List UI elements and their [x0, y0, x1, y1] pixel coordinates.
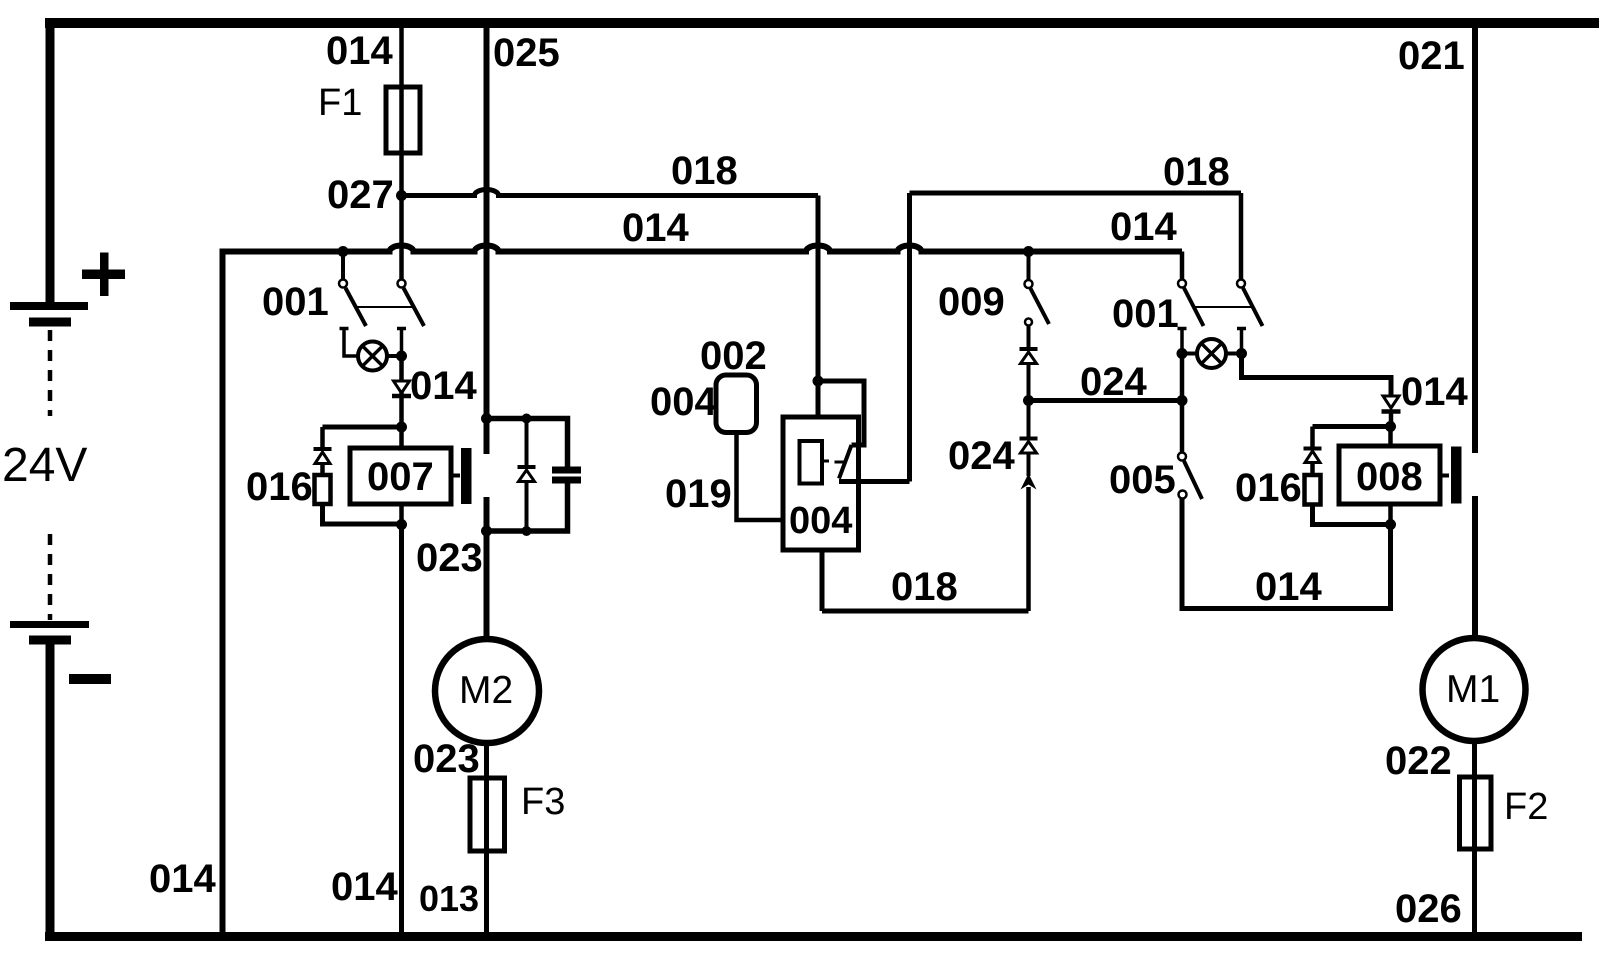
wire resistor 016 upper lead	[320, 427, 325, 449]
switch 001 right group left pivot	[1178, 280, 1186, 288]
wire 018 bottom horizontal	[822, 609, 1029, 614]
svg-text:018: 018	[891, 565, 958, 609]
svg-text:013: 013	[419, 878, 479, 919]
relay 004 switch arm	[839, 445, 852, 479]
svg-text:007: 007	[367, 455, 434, 499]
relay 008 armature bar	[1451, 447, 1462, 504]
wire resistor 016 right upper lead	[1310, 427, 1315, 449]
relay 004 coil nipple	[822, 460, 829, 463]
wire diode branch upper lead	[525, 419, 529, 468]
node junction relay 007 coil top	[396, 422, 407, 433]
lamp left (circle-X)	[358, 342, 387, 371]
svg-text:001: 001	[262, 280, 329, 324]
battery plus sign	[82, 253, 125, 297]
node junction relay 008 coil top	[1385, 421, 1396, 432]
svg-text:014: 014	[149, 857, 216, 901]
svg-text:009: 009	[938, 280, 1005, 324]
svg-text:004: 004	[789, 500, 852, 542]
svg-text:F3: F3	[521, 781, 565, 823]
battery negative long plate	[10, 621, 89, 628]
wire lamp to node 014	[387, 354, 402, 358]
switch 009 pivot	[1025, 280, 1033, 288]
svg-text:024: 024	[1080, 360, 1147, 404]
node junction 018 / relay 004 coil	[813, 376, 824, 387]
wire relay 004 contact feed	[818, 381, 864, 445]
svg-text:024: 024	[948, 434, 1015, 478]
motor M1	[1423, 638, 1526, 741]
svg-text:025: 025	[493, 31, 560, 75]
svg-text:002: 002	[700, 334, 767, 378]
wire switch 001 left pivot feed	[341, 252, 345, 280]
wire 024 horizontal	[1029, 398, 1183, 403]
wire: bottom return bus bar	[45, 932, 1582, 941]
wire chain down to 018 bottom	[1026, 487, 1031, 611]
relay 007 armature link	[451, 474, 460, 478]
wire relay 007 coil top branch	[323, 425, 402, 430]
svg-text:027: 027	[327, 173, 394, 217]
switch 001 right pole pivot	[398, 280, 406, 288]
relay 008 box	[1339, 446, 1440, 504]
wire motor M1 to bottom bus	[1472, 740, 1477, 936]
relay 007 box	[350, 448, 451, 504]
wire relay 007 coil bottom	[399, 504, 404, 525]
diode above resistor 016 right	[1304, 447, 1322, 451]
wire motor M2 to bottom bus	[484, 741, 489, 936]
switch right group right contact stub	[1237, 329, 1246, 352]
wire relay 008 coil top branch	[1313, 424, 1391, 429]
wire resistor 016 right lower lead	[1313, 505, 1391, 525]
check valve symbol 014 left	[394, 381, 410, 393]
wire 018 upper-left horizontal with hump	[402, 190, 819, 196]
svg-text:022: 022	[1385, 739, 1452, 783]
svg-text:014: 014	[326, 29, 393, 73]
arrow head up	[1021, 474, 1037, 490]
wire 018 upper-right horizontal	[910, 191, 1242, 196]
wire switch 009 pivot feed	[1027, 252, 1031, 281]
wire switch 001 right group left pivot feed	[1180, 252, 1185, 280]
wire parallel branch top	[487, 419, 568, 468]
fuse F3	[470, 778, 505, 851]
wire lamp right terminals	[1182, 352, 1242, 356]
node junction lamp left	[1177, 348, 1188, 359]
wire relay 004 output to 018 bottom	[820, 550, 825, 611]
svg-text:M1: M1	[1446, 668, 1500, 711]
diode chain upper	[1020, 347, 1038, 351]
resistor 016 right	[1305, 475, 1321, 505]
svg-text:019: 019	[665, 472, 732, 516]
diode across contact	[518, 465, 536, 469]
node junction lamp right	[1236, 348, 1247, 359]
switch 001 right group linkage	[1194, 306, 1252, 308]
wire capacitor lower lead	[487, 484, 568, 532]
svg-text:018: 018	[1163, 150, 1230, 194]
switch 001 left pole arm	[346, 288, 367, 326]
svg-text:014: 014	[1401, 370, 1468, 414]
node junction diode branch bottom	[522, 526, 532, 536]
wire lamp left down to switch 005	[1180, 354, 1185, 453]
node junction parallel branch bottom	[481, 526, 492, 537]
relay 004 switch arm tick	[835, 461, 846, 464]
lamp right (circle-X)	[1197, 339, 1226, 368]
node junction lamp / 014 drop	[396, 351, 407, 362]
wire to diode chain	[1027, 326, 1031, 350]
battery minus sign	[69, 674, 111, 684]
switch 001 right group left arm	[1184, 288, 1204, 326]
wire 014 fuse F1 feed from top bus	[399, 23, 404, 195]
wire switch 001 right pivot feed	[399, 196, 404, 280]
svg-text:021: 021	[1398, 34, 1465, 78]
diode chain lower	[1020, 437, 1038, 441]
wire valve to relay 008 coil top	[1389, 412, 1394, 427]
resistor 016 left	[315, 475, 331, 504]
battery internal dashed link lower	[48, 534, 53, 620]
relay 008 armature link	[1440, 474, 1449, 478]
switch 001 right contact stub	[397, 329, 406, 352]
svg-text:005: 005	[1109, 458, 1176, 502]
wire relay 004 contact output	[839, 479, 910, 484]
wire switch 005 to 014 bottom	[1182, 499, 1391, 609]
switch 001 left contact stub	[340, 329, 359, 357]
fuse F2	[1460, 777, 1492, 849]
wire 018 drop to right pivot	[1239, 193, 1244, 280]
battery positive short plate	[29, 318, 71, 327]
svg-text:014: 014	[622, 206, 689, 250]
relay 007 armature bar	[461, 448, 472, 504]
switch 005 lower contact	[1179, 491, 1187, 499]
svg-text:008: 008	[1356, 455, 1423, 499]
battery negative wire to bottom bus	[46, 644, 55, 941]
wire to arrow	[1027, 453, 1031, 476]
wire 018 right vertical (relay 004 contact to switch 001)	[907, 193, 912, 482]
svg-text:023: 023	[413, 737, 480, 781]
svg-text:018: 018	[671, 149, 738, 193]
svg-text:014: 014	[1110, 205, 1177, 249]
wire 021 vertical upper (top bus to contact)	[1472, 23, 1478, 453]
node junction 024 / 005	[1177, 395, 1188, 406]
wire 014 long drop to bottom bus	[399, 525, 404, 937]
svg-text:014: 014	[331, 865, 398, 909]
wire relay 007 coil feed	[399, 427, 404, 448]
switch 001 right pole arm	[404, 288, 425, 326]
switch 001 right group right arm	[1243, 288, 1263, 326]
switch 009 arm	[1031, 289, 1050, 325]
wire down to check valve 014	[399, 356, 404, 422]
svg-text:M2: M2	[459, 669, 513, 712]
node junction 024	[1023, 395, 1034, 406]
wire 014 left vertical run	[220, 249, 226, 936]
battery negative short plate	[29, 636, 71, 645]
relay 004 coil	[800, 441, 823, 484]
node 027 junction	[396, 190, 407, 201]
svg-text:24V: 24V	[2, 439, 87, 492]
wire to diode chain lower	[1027, 401, 1031, 439]
wire lamp right down and across to check valve	[1242, 354, 1392, 397]
switch 001 mechanical linkage	[357, 306, 413, 308]
battery internal dashed link upper	[48, 330, 53, 416]
wire 018 left vertical drop to relay 004	[816, 196, 821, 418]
battery positive long plate	[10, 302, 88, 310]
wire 025 vertical upper (top bus to contact)	[484, 23, 490, 454]
diode above resistor 016 left	[314, 447, 332, 451]
svg-text:001: 001	[1112, 292, 1179, 336]
svg-text:014: 014	[410, 364, 477, 408]
node junction diode branch top	[522, 414, 532, 424]
svg-text:014: 014	[1255, 565, 1322, 609]
wire 021 contact lower segment to motor M1	[1472, 496, 1478, 639]
node junction contact parallel branch top	[481, 413, 492, 424]
svg-text:F2: F2	[1504, 786, 1548, 828]
capacitor across contact	[552, 467, 581, 474]
motor M2	[435, 639, 539, 743]
switch right group left contact stub	[1178, 329, 1187, 352]
battery 24V positive feed wire	[46, 23, 55, 303]
connector 002	[716, 375, 757, 433]
wire relay 008 coil bottom	[1388, 504, 1393, 525]
fuse F1	[386, 87, 420, 153]
wire 019 connector to relay 004	[737, 433, 784, 521]
wire relay 008 coil feed	[1388, 427, 1393, 447]
svg-text:016: 016	[1235, 466, 1302, 510]
node junction 014 bus / chain 009	[1023, 246, 1034, 257]
node junction relay 008 coil bottom	[1385, 519, 1396, 530]
wire 025 contact lower segment to motor M2	[484, 497, 490, 641]
switch 009 lower contact	[1025, 319, 1032, 326]
svg-text:016: 016	[246, 465, 313, 509]
svg-text:F1: F1	[318, 82, 362, 124]
check valve symbol 014 right	[1383, 396, 1399, 408]
node junction relay 007 coil bottom	[396, 519, 407, 530]
wire 014 horizontal bus with crossover humps	[220, 246, 1183, 252]
switch 005 pivot	[1178, 453, 1186, 461]
switch 005 arm	[1184, 461, 1202, 499]
svg-text:004: 004	[650, 380, 717, 424]
svg-text:023: 023	[416, 536, 483, 580]
switch 001 right group right pivot	[1237, 280, 1245, 288]
svg-text:026: 026	[1395, 887, 1462, 931]
wire resistor 016 lower lead	[323, 504, 402, 524]
node junction 014 bus / switch 001 left	[338, 246, 349, 257]
switch 001 left pole pivot	[339, 280, 347, 288]
wire: top supply bus bar	[45, 18, 1599, 28]
relay 004 box	[783, 417, 859, 550]
